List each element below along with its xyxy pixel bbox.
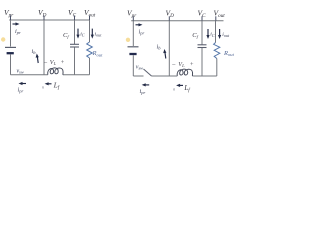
svg-text:+: + (61, 59, 65, 66)
wire Rout bottom right (216, 59, 218, 77)
wire Rout bottom (89, 58, 91, 75)
bottom rail wire middle right circuit (152, 75, 178, 77)
node tick VD right (168, 16, 170, 21)
wire VC column bottom (74, 48, 76, 75)
wire VD column (43, 20, 45, 75)
svg-text:vsw: vsw (136, 64, 143, 70)
bottom rail wire right part right circuit (193, 75, 217, 77)
svg-text:vsw: vsw (17, 68, 24, 74)
current arrow i_L bottom (48, 83, 52, 85)
wire battery bottom (10, 54, 12, 74)
current arrow i_pr top right (136, 24, 141, 26)
wire VC column bottom right (201, 48, 203, 76)
svg-text:iout: iout (222, 32, 230, 38)
wire VC column top (74, 20, 76, 44)
yellow dot marker right (126, 38, 130, 42)
top rail wire right (131, 20, 223, 22)
svg-text:iC: iC (210, 32, 215, 38)
current arrow i_out down (91, 29, 93, 35)
node tick Vout right (215, 16, 217, 21)
wire Vout column top right (215, 21, 217, 43)
wire VC column top right (201, 21, 203, 45)
battery source plate short (7, 52, 14, 54)
yellow dot marker (1, 37, 5, 41)
svg-text:iout: iout (95, 31, 103, 37)
node tick Vpr (10, 16, 12, 21)
node tick Vout (89, 16, 91, 21)
battery source plate long (5, 46, 16, 48)
current arrow i_C down (77, 29, 79, 35)
current arrow i_L bottom right (180, 84, 184, 86)
bottom rail wire right part (64, 74, 90, 76)
battery source plate short right (129, 53, 136, 55)
current arrow i_D up (36, 57, 39, 64)
switch blade open (144, 69, 152, 76)
node tick VC (74, 16, 76, 21)
current arrow i_pr top (13, 23, 18, 25)
battery source plate long right (128, 46, 139, 48)
svg-text:n: n (173, 87, 175, 91)
bottom rail wire left part right circuit (133, 75, 143, 77)
current arrow i_pr bottom right circuit (145, 84, 150, 86)
current arrow i_pr bottom left (22, 83, 27, 85)
current arrow i_D up right (164, 52, 167, 59)
capacitor Cf plate top right (198, 44, 207, 46)
node tick VD (43, 16, 45, 21)
current arrow i_C down right (207, 29, 209, 35)
resistor Rout zigzag (87, 42, 93, 58)
capacitor Cf plate bottom right (198, 47, 207, 49)
wire VD column right (168, 21, 170, 76)
svg-text:n: n (42, 86, 44, 90)
wire battery top (10, 20, 12, 47)
node tick Vpr right (132, 16, 134, 21)
wire battery bottom right (132, 55, 134, 76)
resistor Rout zigzag right (214, 43, 220, 59)
wire Vout column top (89, 20, 91, 42)
svg-text:iC: iC (80, 31, 85, 37)
top rail wire (9, 19, 90, 21)
current arrow i_out down right (219, 29, 221, 35)
svg-text:+: + (190, 61, 194, 68)
capacitor Cf plate bottom (70, 46, 79, 48)
node tick VC right (201, 16, 203, 21)
wire battery top right (132, 21, 134, 46)
inductor Lf coils (48, 68, 64, 75)
capacitor Cf plate top (70, 43, 79, 45)
bottom rail wire left part (11, 74, 48, 76)
inductor Lf coils right (177, 69, 193, 76)
